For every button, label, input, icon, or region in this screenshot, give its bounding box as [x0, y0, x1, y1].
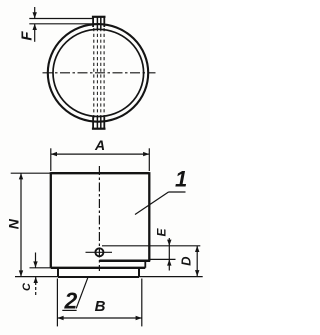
svg-text:D: D: [179, 256, 194, 266]
svg-text:C: C: [21, 282, 33, 291]
svg-text:N: N: [5, 218, 21, 229]
svg-text:A: A: [94, 137, 105, 153]
svg-text:E: E: [155, 228, 169, 237]
svg-text:B: B: [95, 298, 106, 315]
svg-text:F: F: [18, 31, 35, 41]
svg-text:2: 2: [64, 287, 78, 313]
svg-text:1: 1: [175, 166, 187, 191]
